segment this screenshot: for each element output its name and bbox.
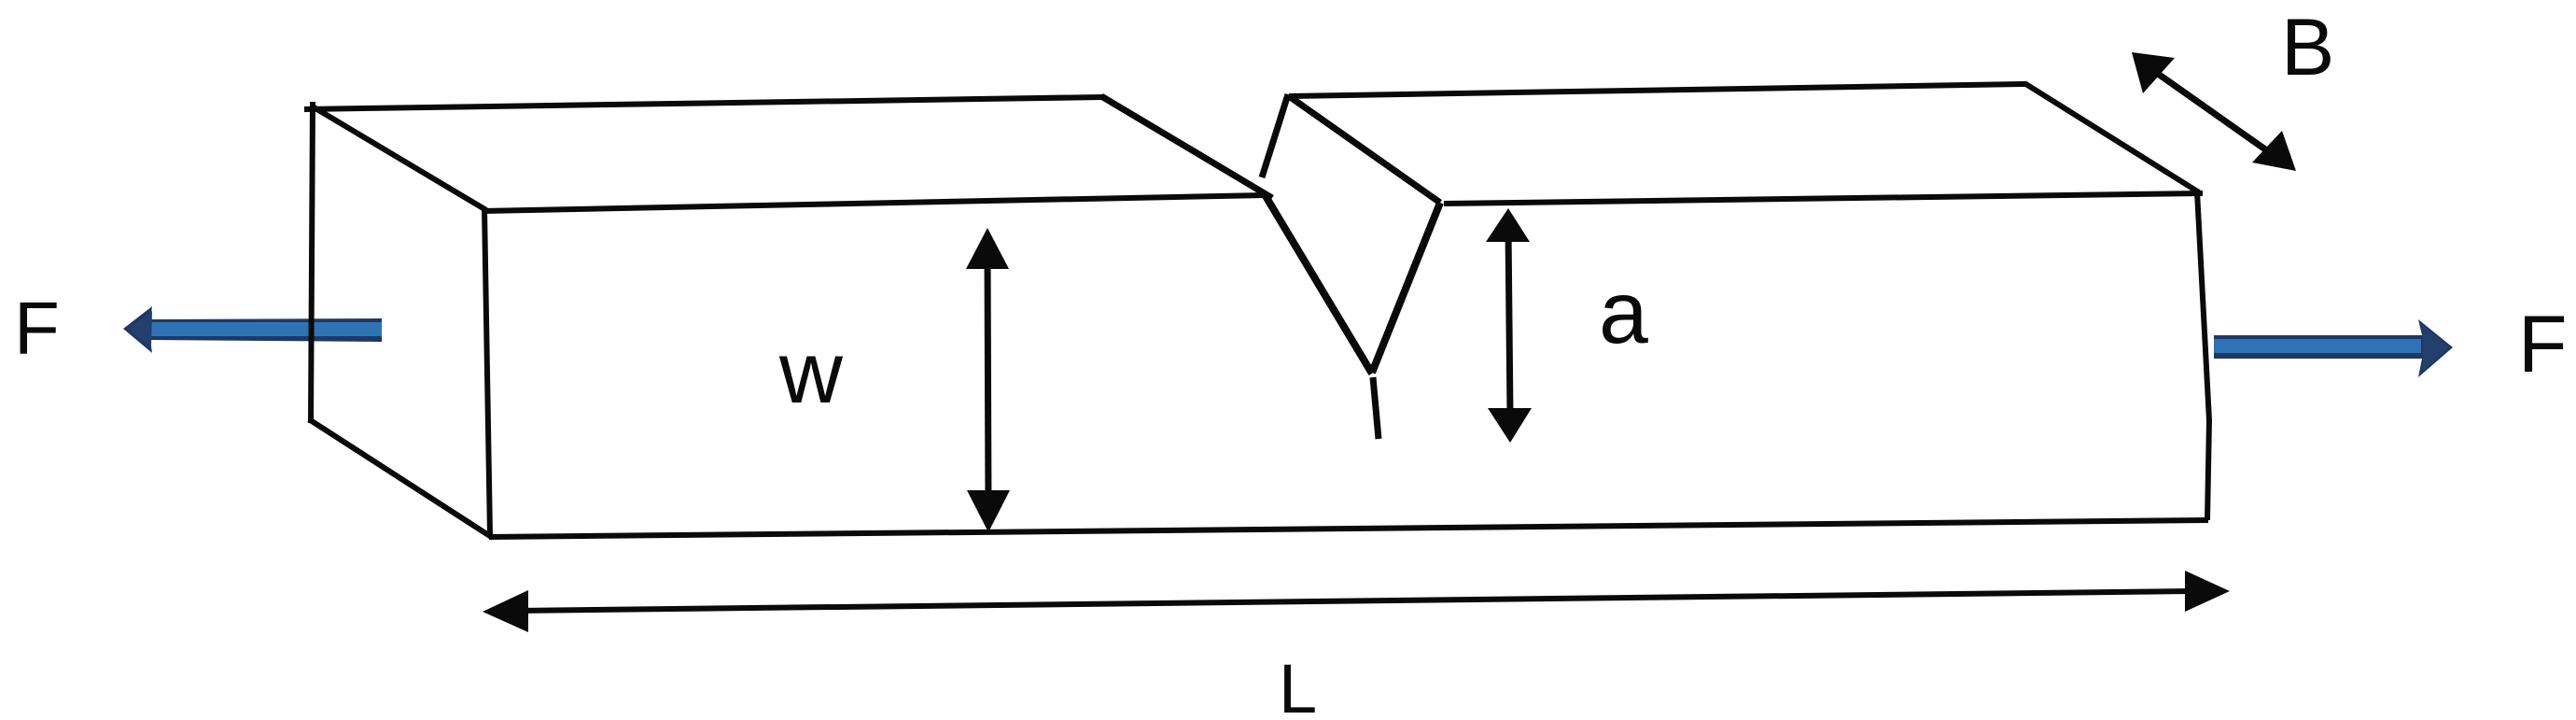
bar bottom-front edge: [489, 520, 2208, 537]
bar top-right depth edge: [2024, 83, 2199, 192]
notch right V face edge (front): [1372, 203, 1440, 373]
dimension arrow a (vertical double arrow): [1486, 208, 1532, 443]
notch right opening edge (top face): [1289, 96, 1440, 203]
bar back-top edge (right block): [1289, 84, 2025, 96]
svg-text:L: L: [1279, 650, 1317, 720]
svg-text:a: a: [1599, 263, 1648, 362]
notch inner back edge: [1262, 94, 1288, 177]
bar front-top edge (right block): [1444, 193, 2203, 204]
force arrow F right (blue): [2214, 319, 2453, 377]
dimension arrow B (diagonal double arrow): [2132, 52, 2296, 171]
svg-text:F: F: [2518, 300, 2568, 389]
bar front-left vertical edge: [484, 208, 490, 535]
bar back-left vertical edge: [311, 102, 313, 423]
dimension arrow W (vertical double arrow): [966, 228, 1010, 532]
svg-text:B: B: [2281, 3, 2334, 92]
bar top-left depth edge: [311, 106, 486, 210]
notch left opening edge (top face): [1101, 96, 1272, 198]
bar front-top edge (left block): [483, 195, 1266, 211]
bar right vertical edge: [2197, 191, 2209, 520]
dimension arrow L (horizontal double arrow): [483, 571, 2230, 632]
svg-text:F: F: [14, 287, 60, 370]
crack below notch tip: [1373, 377, 1379, 439]
force arrow F left (blue): [123, 306, 382, 353]
bar back-top edge (left block): [304, 97, 1102, 109]
svg-text:w: w: [778, 323, 844, 421]
bar bottom-left slant edge: [309, 419, 493, 538]
notch left V face edge (front): [1266, 196, 1372, 374]
